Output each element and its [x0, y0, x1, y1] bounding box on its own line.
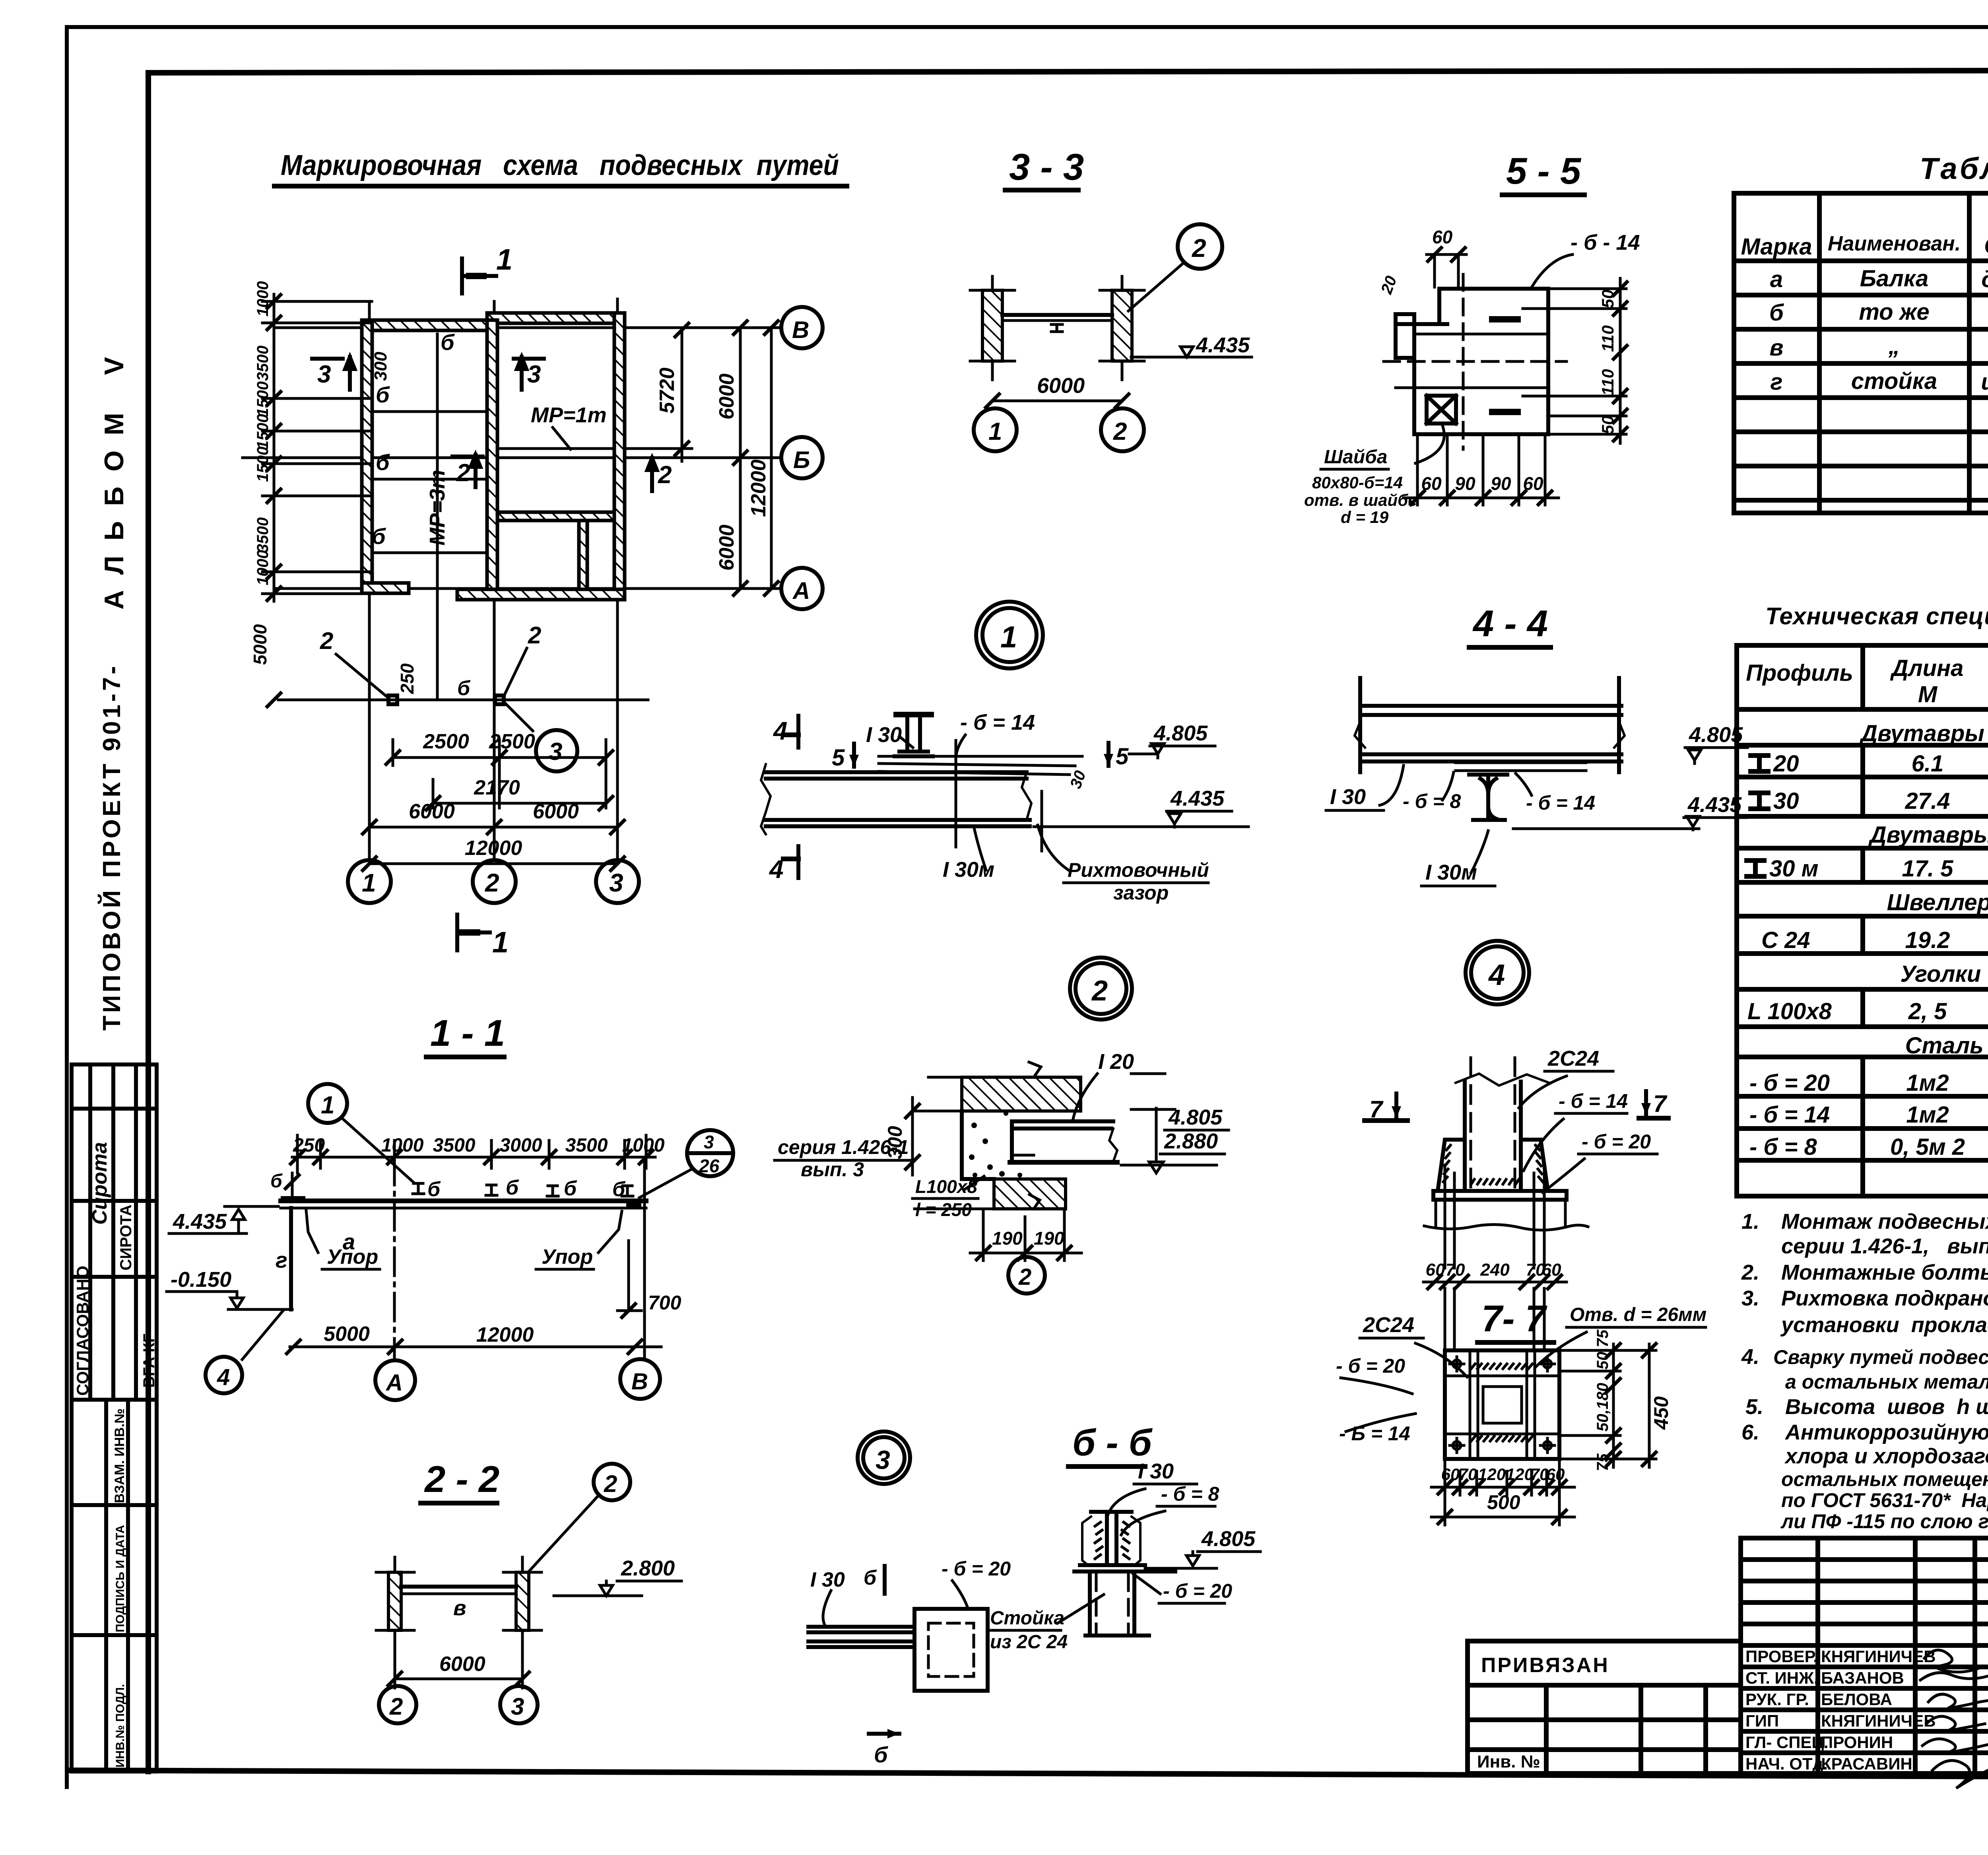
- suspended beams (thin lines) in left bay: [372, 334, 614, 700]
- svg-text:2170: 2170: [474, 776, 520, 799]
- rail I-beam cross-section: [895, 715, 933, 756]
- section 3-3: [970, 146, 1252, 451]
- left margin sidebar: [72, 342, 158, 1771]
- approval stamp upper block: [72, 1064, 157, 1400]
- svg-text:3: 3: [609, 868, 623, 897]
- svg-text:1.: 1.: [1741, 1210, 1759, 1233]
- svg-text:а: а: [1770, 266, 1783, 292]
- svg-text:стойка: стойка: [1851, 368, 1937, 394]
- svg-text:Шайба: Шайба: [1324, 447, 1387, 468]
- svg-text:швеллер: швеллер: [1981, 369, 1988, 395]
- svg-text:б: б: [441, 330, 455, 355]
- svg-text:3: 3: [511, 1693, 524, 1720]
- svg-text:1: 1: [988, 418, 1002, 445]
- svg-text:Упор: Упор: [542, 1245, 593, 1268]
- elevation 4.435: [1131, 356, 1248, 359]
- section 6-6 (post head): [987, 1422, 1260, 1653]
- svg-text:АЛЬБОМ V: АЛЬБОМ V: [99, 342, 129, 610]
- hatched columns: [388, 1572, 401, 1630]
- svg-text:- Б = 14: - Б = 14: [1339, 1422, 1410, 1445]
- svg-text:4.435: 4.435: [1196, 333, 1250, 357]
- beam between columns: [1002, 313, 1112, 317]
- right dims: [1619, 278, 1622, 443]
- svg-text:3.: 3.: [1741, 1286, 1759, 1310]
- axis circles: [974, 408, 1017, 451]
- svg-text:- б = 14: - б = 14: [1749, 1102, 1830, 1128]
- svg-text:17. 5: 17. 5: [1902, 856, 1954, 882]
- svg-text:Сталь листовая ГОСТ 19903: Сталь листовая ГОСТ 19903-74: [1905, 1033, 1988, 1059]
- svg-text:б: б: [372, 524, 386, 549]
- svg-text:6.: 6.: [1741, 1420, 1759, 1444]
- svg-text:1: 1: [321, 1092, 334, 1119]
- svg-text:БЕЛОВА: БЕЛОВА: [1821, 1690, 1892, 1709]
- svg-text:4.435: 4.435: [1170, 787, 1225, 810]
- svg-text:остальных помещениях металло: остальных помещениях металлоконструкции …: [1781, 1468, 1988, 1490]
- bottom dims: [290, 1346, 661, 1348]
- svg-text:М: М: [1918, 682, 1938, 707]
- svg-text:ГЛ- СПЕЦ.: ГЛ- СПЕЦ.: [1745, 1733, 1829, 1752]
- svg-text:1: 1: [496, 243, 513, 276]
- washer square with cross: [1427, 396, 1456, 423]
- lower strut line with posts: [278, 699, 648, 701]
- svg-text:Двутавры ГОСТ 8239-72: Двутавры ГОСТ 8239-72: [1859, 721, 1988, 746]
- svg-text:240: 240: [1480, 1260, 1510, 1280]
- svg-text:б: б: [564, 1177, 577, 1200]
- svg-text:- б = 20: - б = 20: [1749, 1070, 1830, 1096]
- svg-text:С 24: С 24: [1761, 927, 1810, 953]
- 2C24 column: [1456, 1074, 1550, 1191]
- svg-text:60: 60: [1421, 473, 1442, 494]
- svg-text:ПОДПИСЬ И ДАТА: ПОДПИСЬ И ДАТА: [114, 1525, 127, 1632]
- svg-text:2: 2: [528, 622, 541, 649]
- svg-text:- б = 14: - б = 14: [1526, 792, 1595, 814]
- svg-text:450: 450: [1650, 1396, 1672, 1430]
- svg-text:Сирота: Сирота: [88, 1142, 111, 1225]
- svg-text:1: 1: [1000, 620, 1017, 654]
- dim 6000: [395, 1678, 522, 1680]
- svg-text:Монтаж подвесных путей вест: Монтаж подвесных путей вести в соответст…: [1781, 1210, 1988, 1233]
- svg-text:3: 3: [317, 361, 331, 388]
- svg-text:190: 190: [992, 1228, 1023, 1249]
- cap plate: [1080, 1563, 1145, 1567]
- svg-text:2: 2: [485, 868, 499, 897]
- svg-text:2500: 2500: [489, 730, 535, 753]
- numbered notes: [1741, 1210, 1988, 1533]
- svg-text:4: 4: [773, 717, 788, 745]
- svg-text:30 м: 30 м: [1769, 856, 1819, 882]
- lower dimension rows: [369, 740, 617, 864]
- svg-text:2: 2: [604, 1470, 617, 1497]
- title block (stamp): [1468, 1538, 1988, 1822]
- svg-text:Сечение: Сечение: [1984, 233, 1988, 259]
- svg-text:КНЯГИНИЧЕВ: КНЯГИНИЧЕВ: [1821, 1711, 1936, 1730]
- svg-text:б: б: [457, 677, 471, 700]
- svg-text:60: 60: [1426, 1260, 1445, 1280]
- local section marks: [312, 357, 657, 491]
- weld ticks on gussets and base: [1443, 1145, 1543, 1184]
- bottom dim chain 60 70 240 70 60: [1423, 1281, 1567, 1284]
- svg-text:4: 4: [217, 1364, 230, 1390]
- svg-text:I 30: I 30: [866, 723, 902, 747]
- svg-text:6000: 6000: [715, 373, 738, 420]
- svg-text:в: в: [453, 1596, 466, 1620]
- svg-text:А: А: [792, 577, 810, 604]
- svg-text:1500: 1500: [254, 381, 272, 417]
- svg-text:3500: 3500: [254, 346, 272, 381]
- svg-text:12000: 12000: [476, 1323, 534, 1346]
- base plate plan: [1445, 1350, 1559, 1459]
- svg-text:4.805: 4.805: [1153, 721, 1208, 745]
- svg-text:l = 250: l = 250: [915, 1199, 972, 1220]
- I20 beam: [1010, 1121, 1117, 1162]
- svg-text:СТ. ИНЖ.: СТ. ИНЖ.: [1745, 1669, 1819, 1687]
- svg-text:Марка: Марка: [1741, 234, 1812, 260]
- section mark 1 top: [462, 258, 496, 293]
- vertical axis ticks through plate: [955, 740, 957, 847]
- svg-text:А: А: [385, 1370, 403, 1396]
- svg-text:Уголки равнобокие ГОСТ 85: Уголки равнобокие ГОСТ 8509-72: [1900, 961, 1988, 987]
- main plate outline: [1396, 289, 1548, 434]
- svg-text:50,180: 50,180: [1594, 1383, 1611, 1432]
- section mark 1 bottom: [457, 915, 490, 950]
- svg-text:СИРОТА: СИРОТА: [117, 1204, 135, 1270]
- inner drawing frame: [148, 70, 1988, 73]
- inner beam lines: [1384, 274, 1567, 449]
- svg-text:80х80-б=14: 80х80-б=14: [1312, 473, 1403, 492]
- svg-text:установки прокладок в зазор: установки прокладок в зазор б = 30 мм .: [1780, 1313, 1988, 1337]
- svg-text:-0.150: -0.150: [171, 1268, 231, 1292]
- b labels with rail symbols: [427, 1176, 626, 1201]
- adjusting plate: [879, 756, 1082, 775]
- node circle 3: [536, 730, 577, 771]
- svg-text:- б = 14: - б = 14: [1559, 1090, 1628, 1112]
- grid axis lines: [243, 299, 780, 858]
- svg-text:2: 2: [1192, 234, 1206, 262]
- svg-text:- б = 14: - б = 14: [960, 711, 1035, 734]
- plate and rail below: [1456, 763, 1586, 771]
- section 2-2: [376, 1458, 681, 1723]
- node bubble 1 with leader: [308, 1084, 347, 1123]
- floor slab hatched band: [962, 1077, 1081, 1111]
- lower b mark: [869, 1732, 899, 1736]
- bottom dims: [1431, 1486, 1574, 1489]
- svg-text:2: 2: [389, 1693, 403, 1720]
- svg-text:3500: 3500: [254, 517, 272, 553]
- axis verticals: [393, 1157, 396, 1360]
- section 7-7 (base plate plan): [1336, 1288, 1706, 1525]
- top dimension chain: [292, 1156, 655, 1159]
- svg-text:Таблица: Таблица: [1920, 152, 1988, 186]
- svg-text:Двутавры ГОСТ 19425-74: Двутавры ГОСТ 19425-74*: [1868, 822, 1988, 848]
- svg-text:Сварку путей подвесного тра: Сварку путей подвесного транспорта произ…: [1773, 1346, 1988, 1368]
- svg-text:ПРИВЯЗАН: ПРИВЯЗАН: [1481, 1654, 1609, 1677]
- anchor bolts: [1445, 1165, 1544, 1268]
- svg-text:РУК. ГР.: РУК. ГР.: [1745, 1690, 1809, 1709]
- svg-text:ИНВ.№ ПОДЛ.: ИНВ.№ ПОДЛ.: [114, 1684, 127, 1768]
- left post line: [289, 1208, 293, 1309]
- svg-text:г: г: [276, 1247, 287, 1272]
- svg-text:50: 50: [1598, 289, 1617, 308]
- svg-text:27.4: 27.4: [1905, 788, 1950, 814]
- channels: [1445, 1350, 1559, 1459]
- svg-text:1: 1: [362, 868, 376, 897]
- svg-text:300: 300: [371, 352, 390, 381]
- svg-text:50: 50: [1598, 416, 1617, 434]
- svg-text:5000: 5000: [250, 624, 270, 665]
- svg-text:2, 5: 2, 5: [1908, 998, 1947, 1024]
- svg-text:4.805: 4.805: [1201, 1527, 1256, 1551]
- svg-text:В: В: [792, 317, 809, 343]
- svg-text:ВЗАМ. ИНВ.№: ВЗАМ. ИНВ.№: [112, 1408, 127, 1503]
- svg-text:Монтажные болты нормальной: Монтажные болты нормальной точности М16.: [1781, 1261, 1988, 1284]
- steel specification table: [1737, 603, 1988, 1196]
- svg-text:L 100х8: L 100х8: [1747, 998, 1832, 1024]
- svg-text:6000: 6000: [1037, 374, 1085, 398]
- svg-text:1 - 1: 1 - 1: [430, 1012, 505, 1054]
- svg-text:1м2: 1м2: [1906, 1102, 1949, 1128]
- svg-text:2.800: 2.800: [621, 1556, 675, 1580]
- svg-text:6000: 6000: [409, 800, 455, 823]
- runway beam: [281, 1198, 646, 1203]
- bottom dims 190 190: [970, 1209, 1081, 1261]
- svg-text:- б = 8: - б = 8: [1403, 790, 1461, 812]
- bolts (solid marks): [1489, 316, 1521, 322]
- svg-text:Отв. d = 26мм: Отв. d = 26мм: [1570, 1304, 1706, 1325]
- svg-text:4.805: 4.805: [1168, 1105, 1223, 1129]
- svg-text:6000: 6000: [715, 524, 738, 571]
- svg-text:5 - 5: 5 - 5: [1506, 150, 1582, 192]
- top slab beam: [1355, 678, 1625, 772]
- svg-text:- б = 8: - б = 8: [1161, 1483, 1219, 1505]
- svg-text:2 - 2: 2 - 2: [424, 1458, 499, 1500]
- svg-text:б: б: [874, 1742, 888, 1767]
- svg-text:3: 3: [704, 1132, 714, 1152]
- svg-text:б: б: [270, 1171, 283, 1192]
- svg-text:3000: 3000: [500, 1135, 542, 1156]
- leader to node 2: [1178, 224, 1222, 269]
- svg-text:- б = 20: - б = 20: [1336, 1355, 1405, 1377]
- svg-text:d = 19: d = 19: [1341, 508, 1389, 526]
- svg-text:120: 120: [1478, 1465, 1506, 1484]
- svg-text:2С24: 2С24: [1363, 1313, 1414, 1337]
- svg-text:6000: 6000: [533, 800, 579, 823]
- svg-text:2: 2: [1018, 1264, 1031, 1290]
- svg-text:г: г: [1771, 369, 1783, 395]
- svg-text:б: б: [864, 1566, 877, 1589]
- axis circles bottom: [348, 860, 391, 903]
- beam: [401, 1585, 516, 1589]
- gussets: [1438, 1140, 1465, 1191]
- svg-text:ПРОВЕР.: ПРОВЕР.: [1745, 1647, 1818, 1666]
- svg-text:700: 700: [648, 1292, 681, 1314]
- svg-text:КНЯГИНИЧЕВ: КНЯГИНИЧЕВ: [1821, 1647, 1936, 1666]
- svg-text:ГИП: ГИП: [1745, 1711, 1779, 1730]
- svg-text:б: б: [376, 382, 390, 407]
- signature squiggles: [1920, 1650, 1988, 1788]
- svg-text:Маркировочная схема подвес: Маркировочная схема подвесных путей: [281, 150, 839, 181]
- axis circles: [206, 1357, 242, 1393]
- svg-text:Упор: Упор: [327, 1245, 378, 1268]
- node bubble 1: [976, 602, 1043, 668]
- svg-text:Швеллеры ГОСТ 8240-72: Швеллеры ГОСТ 8240-72: [1887, 890, 1988, 915]
- post below: [1085, 1571, 1149, 1636]
- left part ПРИВЯЗАН: [1468, 1641, 1741, 1773]
- axis circles right: [781, 307, 823, 348]
- svg-text:6000: 6000: [439, 1653, 485, 1676]
- svg-text:2.880: 2.880: [1164, 1129, 1218, 1153]
- svg-text:5: 5: [1116, 744, 1129, 769]
- svg-text:3500: 3500: [565, 1135, 608, 1156]
- svg-text:ТИПОВОЙ ПРОЕКТ 901-7-: ТИПОВОЙ ПРОЕКТ 901-7-: [98, 663, 126, 1031]
- beam labels: [372, 330, 455, 549]
- svg-text:120: 120: [1506, 1465, 1534, 1484]
- svg-text:ПРОНИН: ПРОНИН: [1821, 1733, 1893, 1752]
- svg-text:1000: 1000: [622, 1135, 665, 1156]
- svg-text:Инв. №: Инв. №: [1477, 1752, 1540, 1771]
- svg-text:5000: 5000: [324, 1323, 370, 1346]
- svg-text:Наименован.: Наименован.: [1828, 232, 1961, 255]
- 700 dim right: [627, 1241, 630, 1311]
- foundation: [1424, 1200, 1588, 1230]
- svg-text:НАЧ. ОТд.: НАЧ. ОТд.: [1745, 1754, 1828, 1773]
- lower wall hatched: [994, 1179, 1066, 1209]
- svg-text:5720: 5720: [656, 367, 679, 414]
- right dims: [1612, 1344, 1615, 1467]
- svg-text:1500: 1500: [254, 447, 272, 482]
- svg-text:Балка: Балка: [1860, 266, 1928, 291]
- table of sections (Таблица сечений): [1734, 151, 1988, 513]
- svg-text:ВГА КГ: ВГА КГ: [140, 1334, 158, 1388]
- svg-text:б - б: б - б: [1072, 1422, 1153, 1463]
- svg-text:Длина: Длина: [1890, 655, 1964, 681]
- svg-text:300: 300: [884, 1126, 906, 1159]
- svg-text:60: 60: [1432, 227, 1453, 247]
- lower margin block: [72, 1400, 157, 1771]
- svg-text:б: б: [376, 450, 390, 475]
- detail node 1: [761, 602, 1248, 904]
- axis circle 2: [1008, 1257, 1045, 1294]
- main drawing title: [274, 150, 847, 186]
- bolt holes: [1450, 1357, 1555, 1453]
- svg-text:МР=1т: МР=1т: [531, 403, 607, 427]
- svg-text:КРАСАВИН: КРАСАВИН: [1821, 1754, 1912, 1773]
- svg-text:б: б: [1769, 300, 1784, 326]
- svg-text:500: 500: [1487, 1491, 1520, 1513]
- svg-text:двутавр: двутавр: [1981, 266, 1988, 292]
- svg-text:Б: Б: [793, 447, 810, 473]
- svg-text:6.1: 6.1: [1912, 751, 1944, 777]
- right dimension chains: [625, 328, 771, 589]
- svg-text:2: 2: [456, 459, 470, 487]
- svg-text:I 30м: I 30м: [1425, 860, 1477, 884]
- svg-text:хлора и хлордозагорной произ: хлора и хлордозагорной производить по та…: [1784, 1444, 1988, 1468]
- svg-text:0, 5м 2: 0, 5м 2: [1890, 1134, 1965, 1160]
- svg-text:2: 2: [320, 627, 333, 654]
- svg-text:Стойка: Стойка: [990, 1608, 1064, 1629]
- svg-text:- б = 20: - б = 20: [942, 1558, 1011, 1580]
- svg-text:110: 110: [1598, 369, 1617, 396]
- svg-text:3: 3: [549, 738, 562, 765]
- svg-text:- б = 8: - б = 8: [1749, 1134, 1817, 1160]
- svg-text:2500: 2500: [423, 730, 469, 753]
- hatched columns: [982, 290, 1002, 361]
- svg-text:60: 60: [1546, 1465, 1565, 1484]
- svg-text:Профиль: Профиль: [1746, 660, 1853, 686]
- svg-text:а остальных металлоконструкц: а остальных металлоконструкций-электрода…: [1785, 1371, 1988, 1393]
- weld dashes along channels: [1471, 1364, 1532, 1441]
- svg-text:60: 60: [1523, 473, 1543, 494]
- walls with hatching: [362, 313, 625, 600]
- svg-text:190: 190: [1034, 1228, 1064, 1249]
- rail I-section with clamps: [1082, 1512, 1140, 1565]
- svg-text:2.: 2.: [1741, 1261, 1759, 1284]
- svg-text:5: 5: [832, 745, 845, 771]
- svg-text:60: 60: [1542, 1260, 1561, 1280]
- svg-text:Рихтовочный: Рихтовочный: [1068, 859, 1209, 881]
- svg-text:отв. в шайбе: отв. в шайбе: [1304, 491, 1417, 509]
- svg-text:90: 90: [1491, 473, 1511, 494]
- marking plan of suspended rails: [243, 243, 823, 959]
- svg-text:2С24: 2С24: [1547, 1047, 1599, 1070]
- svg-text:1м2: 1м2: [1906, 1070, 1949, 1096]
- runway beam I30m double lines with break: [761, 764, 1031, 834]
- svg-text:75: 75: [1594, 1453, 1611, 1471]
- svg-text:30: 30: [1773, 788, 1799, 814]
- svg-text:то же: то же: [1859, 299, 1929, 325]
- svg-text:3: 3: [527, 361, 541, 388]
- svg-text:250: 250: [397, 663, 417, 694]
- svg-text:2: 2: [658, 461, 672, 489]
- anchor angle under beam: [1012, 1154, 1034, 1157]
- svg-text:МР=3т: МР=3т: [425, 470, 449, 546]
- svg-text:5.: 5.: [1745, 1395, 1763, 1419]
- detail node 4 (column base): [1365, 941, 1668, 1290]
- section 4-4: [1326, 602, 1747, 886]
- svg-text:3500: 3500: [433, 1135, 476, 1156]
- svg-text:2: 2: [1091, 975, 1108, 1007]
- svg-text:4.435: 4.435: [1687, 793, 1742, 817]
- svg-text:I 30: I 30: [1330, 785, 1366, 809]
- svg-text:Рихтовка подкрановых путей п: Рихтовка подкрановых путей по вертикали …: [1781, 1286, 1988, 1310]
- pocket: [914, 1609, 988, 1691]
- svg-text:в: в: [1769, 335, 1783, 361]
- svg-text:19.2: 19.2: [1905, 927, 1950, 953]
- base plate: [1433, 1191, 1567, 1200]
- I-beam symbols in profile column: [1747, 756, 1768, 876]
- svg-text:3: 3: [876, 1445, 890, 1474]
- svg-text:„: „: [1888, 333, 1900, 359]
- svg-text:БАЗАНОВ: БАЗАНОВ: [1821, 1669, 1904, 1687]
- svg-text:В: В: [631, 1369, 648, 1395]
- svg-text:90: 90: [1455, 473, 1475, 494]
- svg-text:110: 110: [1598, 325, 1617, 352]
- svg-text:1000: 1000: [254, 281, 272, 317]
- axis circles: [379, 1686, 416, 1723]
- svg-text:ли ПФ -115 по слою грунта: ли ПФ -115 по слою грунта ПФ -020 (ГОСТ …: [1780, 1510, 1988, 1533]
- svg-text:26: 26: [699, 1156, 720, 1176]
- svg-text:б: б: [427, 1178, 441, 1201]
- svg-text:I 30: I 30: [1138, 1459, 1174, 1483]
- svg-text:70: 70: [1446, 1260, 1465, 1280]
- svg-text:по ГОСТ 5631-70* Наружные ме: по ГОСТ 5631-70* Наружные металлоконстру…: [1781, 1489, 1988, 1511]
- svg-text:7: 7: [1653, 1090, 1668, 1117]
- svg-text:12000: 12000: [465, 837, 522, 860]
- svg-text:из 2С 24: из 2С 24: [990, 1632, 1068, 1653]
- svg-text:3 - 3: 3 - 3: [1009, 146, 1084, 188]
- svg-text:- б - 14: - б - 14: [1571, 231, 1640, 254]
- svg-text:4.435: 4.435: [173, 1210, 227, 1233]
- svg-text:- б = 20: - б = 20: [1163, 1580, 1232, 1602]
